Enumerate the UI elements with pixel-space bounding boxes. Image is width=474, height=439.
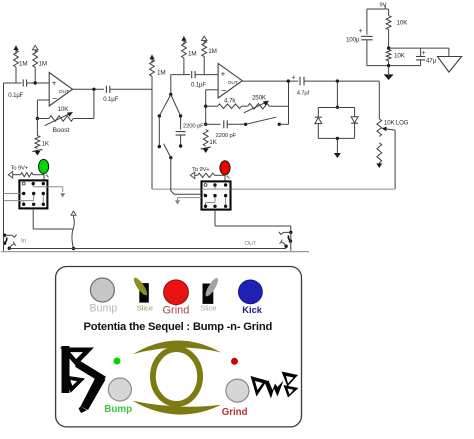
svg-text:0.1µF: 0.1µF [103, 96, 118, 103]
svg-text:+: + [359, 28, 363, 35]
switch2 lugs [204, 183, 228, 208]
op-amp U2 [218, 63, 242, 98]
wire enclosure gray line [1, 251, 309, 253]
node diodes bottom [336, 137, 339, 140]
pedal enclosure [56, 267, 302, 427]
node Vbias [387, 46, 390, 49]
wire to volume pot [378, 81, 380, 119]
node after C6 [336, 79, 339, 82]
resistor R1 1M [14, 50, 19, 67]
node U2 fb lower [204, 123, 207, 126]
bias arrow R5 [201, 36, 207, 45]
svg-text:Slice: Slice [137, 303, 153, 312]
jack In tip [3, 234, 17, 238]
wire C6 to diodes node [304, 80, 379, 82]
svg-text:47µ: 47µ [426, 57, 437, 64]
node kick right [278, 123, 281, 126]
svg-text:10K: 10K [58, 106, 70, 113]
wire curl to ground bus [72, 217, 74, 249]
svg-text:Potentia the Sequel : Bump -n-: Potentia the Sequel : Bump -n- Grind [84, 321, 273, 333]
wire U1 inverting input [37, 100, 49, 119]
capacitor C6 4.7uF [300, 77, 304, 86]
wire gnd lead power [388, 66, 390, 74]
footswitch Bump [108, 378, 131, 401]
wire LED anode stage1 [33, 174, 44, 176]
wire fb to 4.7k [206, 105, 218, 107]
toggle Slice 2 [203, 277, 221, 304]
knob Grind [164, 280, 189, 305]
switch1 entry wire 2 [4, 200, 24, 202]
LED D4 red Grind [220, 161, 230, 182]
wire feedback to Boost pot [37, 118, 49, 120]
svg-text:4.7k: 4.7k [224, 98, 236, 105]
node slice left lower [158, 145, 161, 148]
node slice pole top [169, 93, 172, 96]
wire R5 lead [203, 57, 205, 75]
capacitor C5 2200pF [224, 120, 227, 128]
wire LED anode stage2 [215, 174, 226, 176]
resistor R4 1M [182, 41, 187, 58]
svg-text:1M: 1M [19, 61, 27, 68]
capacitor C8 47uF [416, 57, 425, 60]
node U1 feedback [36, 117, 39, 120]
bias arrow R2 [32, 45, 38, 54]
switch2 internal col2 jumper [206, 196, 216, 207]
ground arrow power [384, 74, 394, 80]
power arrow R3 [149, 55, 154, 64]
svg-text:Bump: Bump [90, 302, 118, 314]
resistor R5 1M [202, 41, 207, 57]
resistor LED dropping stage1 [21, 173, 34, 177]
wire kick to output rail [279, 81, 288, 124]
switch1 input entry wire [4, 193, 24, 195]
wire divider bottom [388, 61, 390, 66]
jack In sleeve [8, 242, 16, 250]
wire U1 out down to Boost [73, 89, 94, 118]
svg-text:1K: 1K [209, 139, 217, 146]
node stage1 +input [34, 81, 37, 84]
wire C3 to opamp U2 [195, 74, 218, 76]
wire to R 1K stage1 [36, 119, 38, 136]
svg-text:Slice: Slice [200, 303, 216, 312]
switch1 internal col3 jumper [42, 194, 44, 205]
wire R4 lead [183, 58, 185, 75]
svg-text:Bump: Bump [104, 404, 132, 415]
wire 9V left down [366, 9, 368, 35]
diode D3 lead top [354, 108, 356, 117]
resistor 1K stage2 [203, 130, 208, 147]
potentiometer Boost 10K element [49, 116, 73, 122]
LED D1 green Bump [39, 159, 49, 180]
diode network top rail [318, 107, 354, 109]
svg-text:OUT: OUT [59, 89, 69, 95]
capacitor C2 0.1uF [106, 86, 109, 93]
resistor R3 1M [150, 59, 155, 76]
power arrow R1 [13, 46, 18, 55]
wire 250K to output node [269, 105, 288, 107]
op-amp U1 [49, 73, 72, 107]
wire U2 inverting [206, 90, 218, 125]
wire 9V rail [367, 8, 389, 10]
wire C1 to opamp U1 [27, 82, 50, 84]
volume wiper arrow [382, 127, 396, 132]
svg-text:Grind: Grind [163, 304, 190, 316]
wire out sleeve down [290, 232, 292, 250]
board arrow switch1 [60, 193, 65, 197]
potentiometer Grind 250K element [248, 103, 270, 109]
resistor 10K divider upper [386, 16, 391, 30]
svg-text:+: + [221, 69, 226, 78]
svg-text:OUT: OUT [245, 241, 258, 247]
wire R1 lead [15, 67, 17, 83]
wire In jack to left rail [3, 235, 5, 251]
switch1 lugs [22, 182, 45, 206]
wire stage2 input top [171, 74, 190, 76]
jack Out ring [288, 235, 292, 242]
node slice cap bottom [179, 144, 182, 147]
resistor R2 1M [33, 50, 38, 68]
wire input to C1 [4, 82, 22, 84]
knob Bump [90, 278, 114, 302]
wire C8 top lead [420, 48, 422, 57]
switch1 wire exit to board arrow [47, 187, 62, 192]
switch1 bottom exit wire [33, 208, 73, 229]
node slice left contact [158, 114, 161, 117]
svg-text:1M: 1M [188, 50, 196, 57]
wire 9V arrow to resistor stage1 [13, 174, 21, 176]
svg-text:In: In [21, 238, 27, 245]
svg-text:Boost: Boost [53, 127, 70, 134]
bias triangle symbol [438, 57, 462, 73]
node gnd divider [387, 64, 390, 67]
wire slice left contact down [158, 116, 160, 147]
wire slice cap lead [180, 116, 182, 130]
ground arrow diodes [334, 153, 341, 158]
knob Kick [239, 280, 263, 304]
resistor LED dropping stage2 [198, 173, 215, 177]
svg-text:1M: 1M [39, 61, 47, 68]
svg-text:10K: 10K [394, 52, 406, 59]
svg-text:100µ: 100µ [346, 37, 360, 44]
node kick left [244, 123, 247, 126]
potentiometer 250K wiper arrow [244, 101, 269, 113]
svg-text:2200 pF: 2200 pF [183, 123, 204, 129]
svg-text:0.1µF: 0.1µF [191, 81, 206, 88]
board arrow up near In [71, 211, 76, 217]
wire C7 down [367, 40, 421, 66]
switch2 bottom exit [215, 210, 291, 233]
wire U2 output [242, 80, 298, 82]
wire 10K upper lead [388, 9, 390, 16]
node slice right contact [179, 114, 182, 117]
toggle Slice 1 [132, 276, 149, 303]
wire to bias symbol [448, 48, 450, 56]
potentiometer Volume 10K LOG lower [377, 143, 382, 163]
wire diodes to ground [336, 138, 338, 153]
svg-text:+: + [292, 75, 296, 82]
wire volume gnd lead [378, 163, 380, 164]
wire C5 to kick switch [227, 123, 246, 125]
board arrow switch2 [175, 200, 180, 204]
wire C2 to stage2 [110, 88, 152, 90]
node U2 fb upper [204, 105, 207, 108]
wire 4.7k to 250K [242, 105, 248, 107]
capacitor C1 0.1uF [23, 79, 26, 86]
arrow to 9V stage1 [8, 172, 13, 178]
wire ground bus [9, 248, 286, 250]
capacitor C4 2200pF [176, 132, 186, 135]
diode D2 cathode-up [315, 117, 322, 123]
wire divider mid [388, 30, 390, 50]
node ground bus junction [72, 247, 75, 250]
jack In ring [3, 238, 7, 245]
wire slice pole to switch2 [171, 158, 202, 195]
logo left BT glyph [62, 346, 70, 393]
ground arrow stage1 [32, 150, 42, 156]
svg-text:OUT: OUT [228, 80, 238, 86]
svg-text:1K: 1K [42, 140, 50, 147]
wire 9V tick [384, 5, 386, 9]
potentiometer Volume 10K LOG upper [377, 119, 382, 137]
wire bypass line vertical [151, 89, 153, 189]
svg-text:−: − [52, 94, 57, 104]
svg-text:2200 pF: 2200 pF [216, 133, 237, 139]
diode network bottom rail [318, 137, 354, 139]
svg-text:250K: 250K [252, 95, 267, 102]
node U2 output [287, 79, 290, 82]
wire volume wiper down [394, 130, 396, 189]
wire R3 lead [151, 76, 153, 89]
capacitor C3 0.1uF [192, 71, 195, 78]
diode D3 cathode-down [351, 117, 358, 123]
svg-text:0.1µF: 0.1µF [8, 92, 23, 99]
svg-text:Grind: Grind [222, 407, 248, 418]
switch1 internal wire top-mid to right exit [33, 184, 47, 187]
switch2 top-mid stem [214, 185, 216, 189]
svg-text:−: − [221, 86, 226, 96]
resistor 1K stage1 [35, 136, 40, 149]
wire stage2 bend down [170, 75, 172, 95]
node U1 output [92, 88, 95, 91]
resistor 10K divider lower [386, 50, 391, 61]
diode D2 lead bottom [317, 124, 319, 139]
wire C8 bottom lead [420, 60, 422, 66]
jack Out tip [279, 231, 293, 235]
wire 9V arrow to resistor stage2 [195, 174, 198, 176]
svg-text:1M: 1M [157, 69, 165, 76]
diode D3 lead bottom [354, 123, 356, 138]
switch Slice lower lever [164, 144, 171, 158]
svg-text:+: + [52, 79, 57, 88]
wire bypass to switch2 [152, 188, 202, 190]
svg-text:1M: 1M [208, 48, 216, 55]
wire down to diodes [336, 81, 338, 107]
wire R2 lead [34, 67, 36, 83]
svg-text:Kick: Kick [242, 305, 262, 315]
svg-text:To 9V+: To 9V+ [11, 165, 29, 171]
footswitch Grind [226, 379, 249, 402]
switch2 through wire to wiper [202, 188, 231, 190]
power arrow R4 [181, 36, 186, 45]
logo center olive emblem [132, 340, 221, 414]
resistor 4.7k [218, 104, 242, 109]
svg-text:10K LOG: 10K LOG [384, 119, 409, 126]
wire slice cap lead2 [180, 135, 182, 146]
wire bias rail [389, 47, 449, 49]
indicator LED green [114, 358, 121, 365]
indicator LED red [231, 358, 238, 365]
node slice pole bottom [169, 156, 172, 159]
ground arrow stage2 [201, 147, 211, 153]
switch Kick lever [246, 117, 276, 124]
wire U1 output [73, 88, 105, 90]
ground arrow volume [376, 163, 382, 168]
switch 3PDT Bump box [19, 180, 47, 208]
switch1 internal col2 jumper [24, 194, 34, 205]
switch 3PDT Grind box [202, 181, 231, 209]
diode D2 lead top [317, 108, 319, 118]
capacitor C7 100uF [361, 36, 372, 39]
wire fb node to C5 [206, 123, 221, 125]
svg-text:10K: 10K [397, 19, 409, 26]
svg-text:4.7µf: 4.7µf [297, 90, 310, 96]
wire volume wiper to switch2 [231, 188, 396, 190]
potentiometer Boost wiper arrow [45, 112, 73, 126]
jack Out sleeve [280, 240, 288, 248]
logo right DWB glyph [251, 372, 299, 399]
arrow to 9V stage2 [190, 172, 195, 178]
switch Slice upper lever [159, 95, 180, 117]
switch2 internal col3 jumper [225, 196, 227, 207]
switch2 entry to col1row2 [202, 194, 206, 195]
node diodes top [336, 106, 339, 109]
wire input vertical from In jack [3, 83, 5, 235]
switch2 gray exit left [178, 198, 202, 200]
